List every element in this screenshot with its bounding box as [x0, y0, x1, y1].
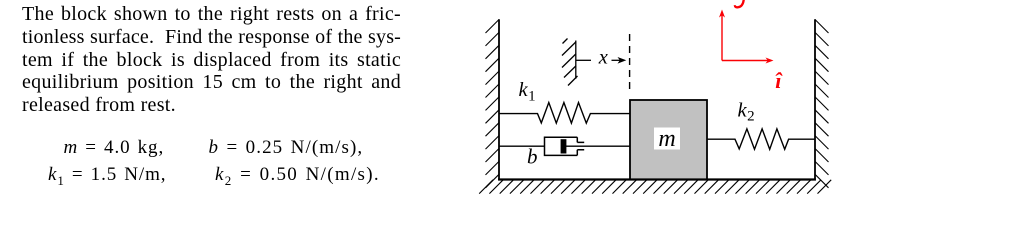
right wall hatching [815, 20, 829, 188]
spring k1 [499, 103, 630, 124]
svg-text:k1: k1 [519, 79, 536, 104]
equation k1 = 1.5 N/m [48, 165, 166, 184]
left wall line [498, 19, 500, 180]
floor hatching [479, 180, 831, 194]
damper piston [561, 139, 567, 153]
svg-text:x: x [598, 47, 608, 69]
damper rod right [566, 145, 630, 147]
floor line [498, 178, 816, 180]
equation m = 4.0 kg [64, 138, 165, 157]
svg-text:b: b [527, 145, 538, 169]
right wall line [814, 19, 816, 180]
svg-text:î: î [775, 68, 783, 93]
left wall hatching [486, 20, 500, 188]
dashed guide line [629, 34, 631, 89]
svg-text:m: m [658, 126, 675, 152]
axis i arrow [722, 58, 774, 64]
equation b = 0.25 N/(m/s) [209, 138, 364, 157]
anchor reference mark [562, 39, 578, 86]
spring k2 [707, 129, 815, 149]
mass label box [654, 128, 680, 150]
paragraph text [22, 3, 401, 117]
label j hat (clipped at top) [735, 0, 744, 7]
equation k2 = 0.50 N/(m/s) [215, 165, 380, 184]
damper rod left [499, 145, 545, 147]
damper body [545, 137, 585, 155]
mass block [630, 100, 707, 179]
axis j arrow [719, 10, 725, 61]
svg-text:k2: k2 [738, 100, 755, 125]
anchor link line [576, 59, 591, 61]
displacement arrow [612, 57, 627, 64]
